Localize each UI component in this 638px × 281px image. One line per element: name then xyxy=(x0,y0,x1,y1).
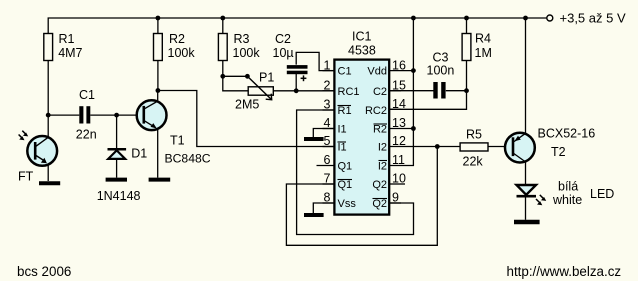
svg-text:14: 14 xyxy=(392,97,406,111)
svg-text:FT: FT xyxy=(18,170,34,184)
wire R3 bottom to P1 xyxy=(223,61,248,91)
wire R2 bottom xyxy=(157,61,159,91)
svg-text:Q2: Q2 xyxy=(372,179,387,191)
pin stubs right xyxy=(390,90,402,92)
ground pin4 xyxy=(304,137,324,141)
wire C1 to T1 base xyxy=(90,114,139,116)
svg-text:12: 12 xyxy=(392,134,406,148)
svg-text:C1: C1 xyxy=(79,88,95,102)
wire T1 emitter to ground xyxy=(157,129,159,178)
node pin12/R5/Q1bar junction xyxy=(435,144,440,149)
svg-text:16: 16 xyxy=(392,58,406,72)
node pin13 xyxy=(411,126,416,131)
pin stubs left xyxy=(323,70,334,72)
svg-text:+3,5 až 5 V: +3,5 až 5 V xyxy=(560,11,626,26)
wire C3 right to R4 xyxy=(446,90,467,92)
node rail R4 xyxy=(464,16,469,21)
svg-text:9: 9 xyxy=(392,191,399,205)
wire R4 bottom xyxy=(466,61,468,91)
svg-text:5: 5 xyxy=(324,134,331,148)
pin 10 stub xyxy=(390,183,406,185)
node T1 collector junction xyxy=(156,88,161,93)
pin 7 wire Q1bar loop xyxy=(286,147,437,246)
svg-text:8: 8 xyxy=(324,191,331,205)
pin 4 wire to ground xyxy=(313,129,333,138)
pin 13 stub xyxy=(390,128,414,130)
IC internal labels left xyxy=(338,66,360,210)
svg-text:Vdd: Vdd xyxy=(367,66,387,78)
overlines for inverted pins xyxy=(338,106,388,199)
svg-text:R1: R1 xyxy=(338,105,352,117)
resistor R5 xyxy=(460,143,488,151)
svg-text:100k: 100k xyxy=(233,46,261,60)
wire LED to ground xyxy=(525,196,527,220)
svg-text:C2: C2 xyxy=(275,32,291,46)
svg-text:R5: R5 xyxy=(466,127,482,141)
pin 8 wire to ground xyxy=(313,203,333,213)
ground T1 xyxy=(149,178,171,182)
pin 12 wire to R5 xyxy=(390,146,461,148)
svg-text:BCX52-16: BCX52-16 xyxy=(538,127,596,141)
node rail Vdd xyxy=(411,16,416,21)
wire R2 top xyxy=(157,18,159,34)
svg-text:I1: I1 xyxy=(338,142,347,154)
svg-text:1M: 1M xyxy=(475,46,492,60)
pin numbers right xyxy=(392,58,406,204)
wire C1 left xyxy=(48,114,79,116)
LED light arrows xyxy=(536,195,546,205)
svg-text:R4: R4 xyxy=(475,32,491,46)
svg-text:I2: I2 xyxy=(378,161,387,173)
svg-text:T2: T2 xyxy=(551,145,566,159)
resistor R1 xyxy=(44,34,53,61)
wire Vdd net vertical xyxy=(390,18,414,166)
wire top supply rail xyxy=(48,18,547,34)
transistor T1 xyxy=(137,100,167,130)
svg-text:C2: C2 xyxy=(373,86,387,98)
transistor T2 xyxy=(505,133,535,163)
wire FT emitter to ground xyxy=(47,165,49,182)
node pin16 xyxy=(411,68,416,73)
svg-text:4: 4 xyxy=(324,116,331,130)
pin 3 wire to pin 9 loop xyxy=(297,110,414,235)
wire P1 to pin2 xyxy=(273,90,333,92)
svg-text:15: 15 xyxy=(392,79,406,93)
wire P1 wiper top xyxy=(223,75,248,77)
node R4/C3/RC2 junction xyxy=(464,88,469,93)
svg-text:2: 2 xyxy=(324,79,331,93)
ground D1 xyxy=(106,178,127,182)
svg-text:T1: T1 xyxy=(170,133,185,147)
svg-text:2M5: 2M5 xyxy=(235,98,259,112)
wire R1 bottom to FT collector xyxy=(47,61,49,137)
svg-text:C3: C3 xyxy=(433,51,449,65)
potentiometer P1 xyxy=(248,87,273,95)
node rail R3 xyxy=(220,16,225,21)
ground pin8 xyxy=(304,213,324,217)
svg-text:LED: LED xyxy=(590,187,614,201)
wire R5 to T2 base xyxy=(488,146,504,148)
wire C2 top to pin1 xyxy=(296,52,333,70)
svg-text:I1: I1 xyxy=(338,124,347,136)
ground LED xyxy=(514,220,540,225)
svg-text:RC1: RC1 xyxy=(338,86,360,98)
svg-text:IC1: IC1 xyxy=(352,30,372,44)
svg-text:http://www.belza.cz: http://www.belza.cz xyxy=(507,264,622,279)
node R3/P1 junction xyxy=(220,74,225,79)
label C2 plus xyxy=(301,75,307,81)
node D1 junction xyxy=(114,113,119,118)
wire C2 bottom xyxy=(295,74,297,91)
svg-text:Vss: Vss xyxy=(338,198,357,210)
node R1/C1/FT junction xyxy=(46,113,51,118)
light arrows into FT xyxy=(19,131,29,141)
svg-text:RC2: RC2 xyxy=(365,105,387,117)
wire T1 collector xyxy=(157,91,159,101)
wire T1 collector to pin5 xyxy=(158,91,334,147)
svg-text:Q1: Q1 xyxy=(338,161,353,173)
svg-text:Q2: Q2 xyxy=(372,198,387,210)
svg-text:R2: R2 xyxy=(373,124,387,136)
svg-text:I2: I2 xyxy=(378,142,387,154)
wire D1 anode to ground xyxy=(116,159,118,178)
resistor R4 xyxy=(462,34,471,61)
svg-text:11: 11 xyxy=(392,153,405,167)
node rail R2 xyxy=(156,16,161,21)
svg-text:P1: P1 xyxy=(259,71,274,85)
pin 14 wire xyxy=(390,91,467,110)
svg-text:R1: R1 xyxy=(59,32,75,46)
node P1 wiper junction xyxy=(245,74,250,79)
ground FT xyxy=(39,181,60,185)
pin 15 wire to C3 xyxy=(390,90,434,92)
svg-text:Q1: Q1 xyxy=(338,179,353,191)
svg-text:22k: 22k xyxy=(463,155,484,169)
pin 16 stub xyxy=(390,70,414,72)
svg-text:10: 10 xyxy=(392,172,406,186)
svg-text:7: 7 xyxy=(324,172,331,186)
pin 6 stub xyxy=(317,165,334,167)
svg-text:4538: 4538 xyxy=(348,44,376,58)
wire T2 emitter to LED xyxy=(525,161,527,185)
svg-text:6: 6 xyxy=(324,153,331,167)
svg-text:1N4148: 1N4148 xyxy=(97,189,141,203)
svg-text:3: 3 xyxy=(324,98,331,112)
svg-text:100n: 100n xyxy=(427,64,455,78)
resistor R2 xyxy=(154,34,163,61)
svg-text:bílá: bílá xyxy=(558,180,578,194)
node supply terminal xyxy=(547,15,553,21)
svg-text:white: white xyxy=(552,193,582,207)
IC internal labels right xyxy=(365,66,387,210)
node C2 bottom junction xyxy=(294,88,299,93)
svg-text:C1: C1 xyxy=(338,66,352,78)
svg-text:4M7: 4M7 xyxy=(58,46,82,60)
phototransistor FT xyxy=(27,136,57,166)
capacitor C3 xyxy=(433,82,445,99)
diode D1 xyxy=(108,148,127,151)
svg-text:13: 13 xyxy=(392,116,406,130)
svg-text:10µ: 10µ xyxy=(273,46,294,60)
capacitor C2 xyxy=(287,65,308,74)
svg-text:R2: R2 xyxy=(169,32,185,46)
wire T2 collector to rail xyxy=(525,18,527,133)
svg-text:100k: 100k xyxy=(168,46,196,60)
svg-text:bcs 2006: bcs 2006 xyxy=(17,264,71,279)
capacitor C1 xyxy=(79,106,90,123)
IC1 body xyxy=(334,60,389,215)
svg-text:BC848C: BC848C xyxy=(165,151,211,165)
svg-text:1: 1 xyxy=(324,58,331,72)
resistor R3 xyxy=(218,34,227,61)
pin numbers left xyxy=(324,58,331,204)
svg-text:22n: 22n xyxy=(76,127,97,141)
wire D1 cathode top xyxy=(116,115,118,149)
node rail T2 xyxy=(523,16,528,21)
svg-text:D1: D1 xyxy=(131,146,147,160)
wire R3 top xyxy=(222,18,224,34)
svg-text:R3: R3 xyxy=(234,32,250,46)
wire R4 top xyxy=(466,18,468,34)
LED diode xyxy=(517,185,537,195)
